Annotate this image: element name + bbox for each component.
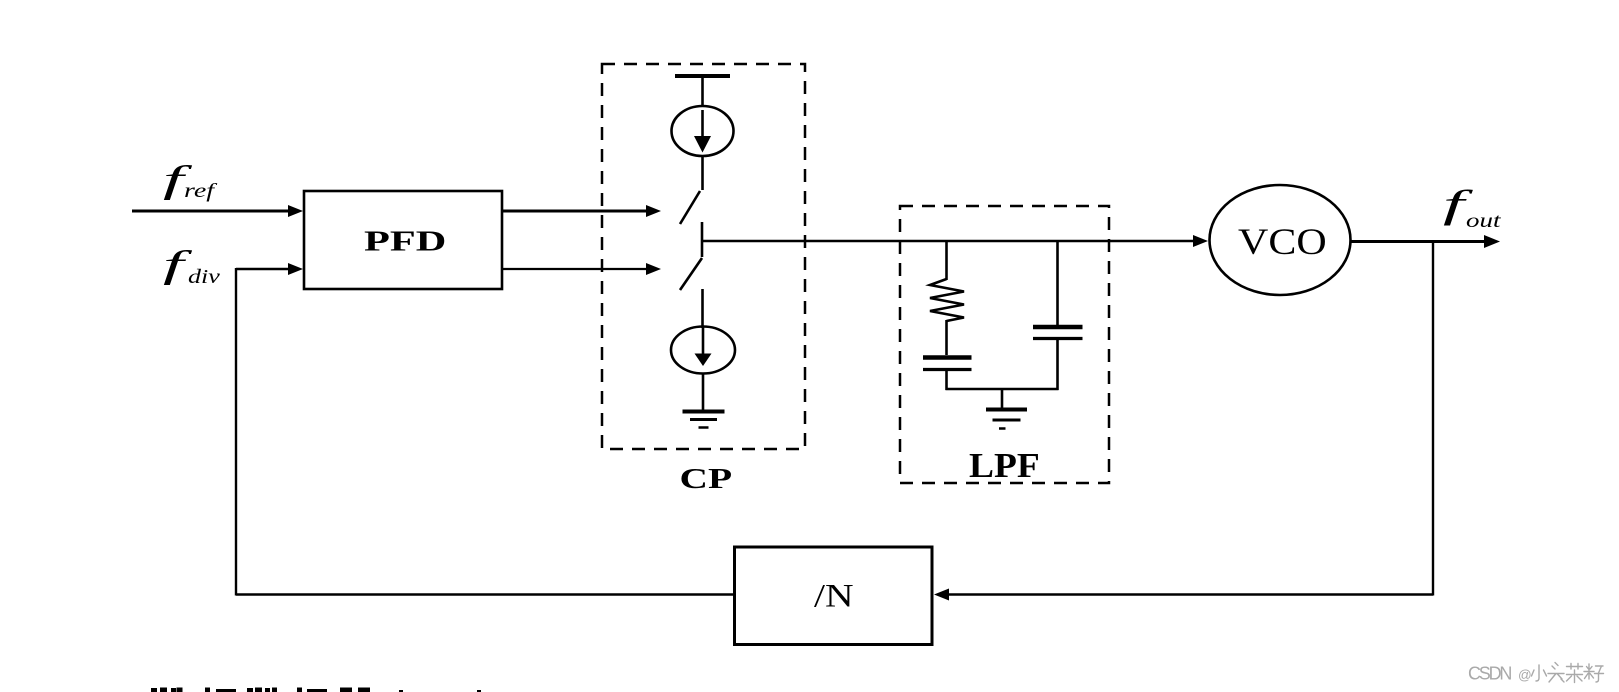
- wire feedback into divider: [934, 589, 1433, 601]
- node output bar: [701, 222, 704, 257]
- low pass filter LPF dashed boundary: [900, 206, 1109, 483]
- capacitor C2: [1033, 327, 1083, 339]
- charge pump CP dashed boundary: [602, 64, 805, 449]
- wire feedback up: [235, 268, 237, 596]
- node f_ref label: [163, 158, 218, 201]
- svg-text:LPF: LPF: [969, 446, 1040, 485]
- svg-text:VCO: VCO: [1238, 221, 1327, 262]
- caption fragment (cropped bold text tops): [151, 688, 481, 692]
- oscillator VCO: [1210, 185, 1351, 295]
- wire f_ref input: [132, 205, 303, 217]
- watermark CSDN: [1468, 663, 1604, 684]
- capacitor C1: [923, 358, 972, 370]
- power rail VDD: [675, 74, 730, 78]
- block PFD: [304, 191, 502, 289]
- svg-text:PFD: PFD: [364, 225, 446, 257]
- watermark char tou: [1548, 663, 1564, 683]
- watermark char cai: [1567, 664, 1583, 683]
- watermark char xiao: [1532, 665, 1547, 681]
- wire S2 to I2: [701, 289, 704, 328]
- svg-text:out: out: [1466, 210, 1502, 232]
- svg-text:/N: /N: [814, 578, 854, 614]
- wire f_div input: [236, 263, 303, 275]
- wire VDD to I1: [701, 76, 704, 107]
- wire C2 branch: [1056, 241, 1059, 326]
- wire I2 to ground: [702, 373, 705, 410]
- svg-text:div: div: [188, 266, 221, 288]
- switch S1: [680, 191, 700, 224]
- node f_out label: [1443, 183, 1502, 232]
- current source I1: [672, 106, 734, 156]
- wire ground stem LPF: [1001, 389, 1004, 408]
- svg-text:CP: CP: [680, 463, 733, 495]
- wire PFD UP output: [502, 205, 661, 217]
- watermark char zi: [1584, 664, 1604, 682]
- current source I2: [671, 327, 735, 374]
- resistor R1: [930, 279, 964, 321]
- wire R1 branch: [945, 241, 948, 280]
- wire R1 to C1: [945, 320, 948, 355]
- svg-text:ref: ref: [184, 180, 218, 202]
- wire divider output: [236, 593, 735, 595]
- wire CP output to VCO: [702, 235, 1208, 247]
- node f_div label: [163, 243, 221, 288]
- svg-text:@: @: [1518, 668, 1532, 683]
- divider /N: [735, 547, 933, 645]
- svg-text:CSDN: CSDN: [1468, 664, 1511, 684]
- wire I1 to switch S1: [701, 156, 704, 190]
- wire VCO output: [1350, 235, 1500, 248]
- switch S2: [680, 258, 702, 290]
- ground LPF: [986, 410, 1027, 429]
- wire C2 to bottom rail: [1056, 340, 1059, 390]
- wire C1 to bottom rail: [945, 371, 948, 390]
- wire LPF bottom rail: [946, 388, 1059, 390]
- wire feedback down: [1432, 242, 1434, 596]
- ground CP: [683, 412, 725, 428]
- wire PFD DN output: [502, 263, 661, 275]
